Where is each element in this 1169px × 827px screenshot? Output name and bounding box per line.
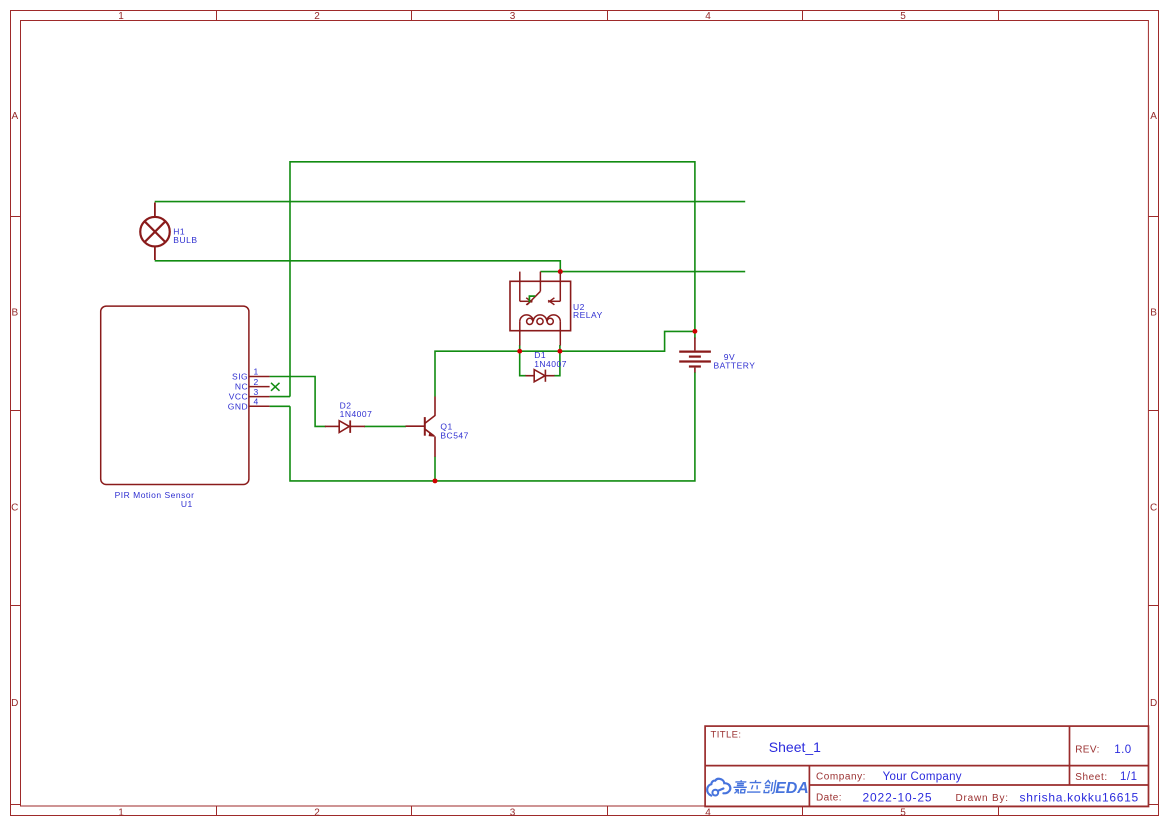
svg-text:RELAY: RELAY — [573, 310, 603, 320]
svg-text:Company:: Company: — [816, 772, 866, 783]
svg-text:D: D — [1150, 698, 1157, 709]
svg-text:2: 2 — [314, 807, 320, 818]
svg-text:SIG: SIG — [232, 372, 248, 382]
svg-text:EDA: EDA — [775, 780, 808, 797]
svg-text:Drawn By:: Drawn By: — [956, 793, 1009, 804]
svg-text:VCC: VCC — [229, 392, 248, 402]
svg-text:2: 2 — [314, 11, 320, 22]
svg-text:3: 3 — [510, 807, 516, 818]
svg-text:1: 1 — [118, 11, 124, 22]
svg-text:B: B — [11, 308, 18, 319]
svg-text:A: A — [1150, 111, 1157, 122]
svg-text:4: 4 — [254, 397, 259, 407]
svg-text:C: C — [11, 502, 18, 513]
svg-text:1/1: 1/1 — [1120, 771, 1138, 783]
svg-text:C: C — [1150, 502, 1157, 513]
svg-text:REV:: REV: — [1075, 745, 1100, 756]
svg-text:2022-10-25: 2022-10-25 — [863, 791, 933, 805]
svg-text:U1: U1 — [181, 499, 193, 509]
svg-text:D: D — [11, 698, 18, 709]
svg-text:BULB: BULB — [173, 235, 197, 245]
svg-text:4: 4 — [705, 11, 711, 22]
svg-text:1N4007: 1N4007 — [534, 359, 567, 369]
svg-text:1: 1 — [254, 367, 259, 377]
svg-text:shrisha.kokku16615: shrisha.kokku16615 — [1020, 791, 1139, 805]
svg-text:B: B — [1150, 308, 1157, 319]
svg-text:TITLE:: TITLE: — [711, 730, 742, 741]
svg-text:1.0: 1.0 — [1114, 744, 1132, 756]
svg-text:1N4007: 1N4007 — [340, 409, 373, 419]
svg-text:A: A — [11, 111, 18, 122]
svg-text:Sheet_1: Sheet_1 — [769, 739, 821, 755]
svg-text:Sheet:: Sheet: — [1075, 772, 1108, 783]
svg-text:5: 5 — [900, 11, 906, 22]
svg-text:BATTERY: BATTERY — [714, 361, 756, 371]
svg-text:3: 3 — [510, 11, 516, 22]
svg-text:2: 2 — [254, 377, 259, 387]
svg-text:1: 1 — [118, 807, 124, 818]
svg-text:Your Company: Your Company — [883, 771, 962, 783]
svg-text:Date:: Date: — [816, 792, 842, 803]
svg-text:NC: NC — [235, 382, 248, 392]
svg-text:5: 5 — [900, 807, 906, 818]
svg-text:BC547: BC547 — [440, 430, 469, 440]
svg-text:3: 3 — [254, 387, 259, 397]
svg-text:4: 4 — [705, 807, 711, 818]
svg-text:GND: GND — [228, 401, 248, 411]
